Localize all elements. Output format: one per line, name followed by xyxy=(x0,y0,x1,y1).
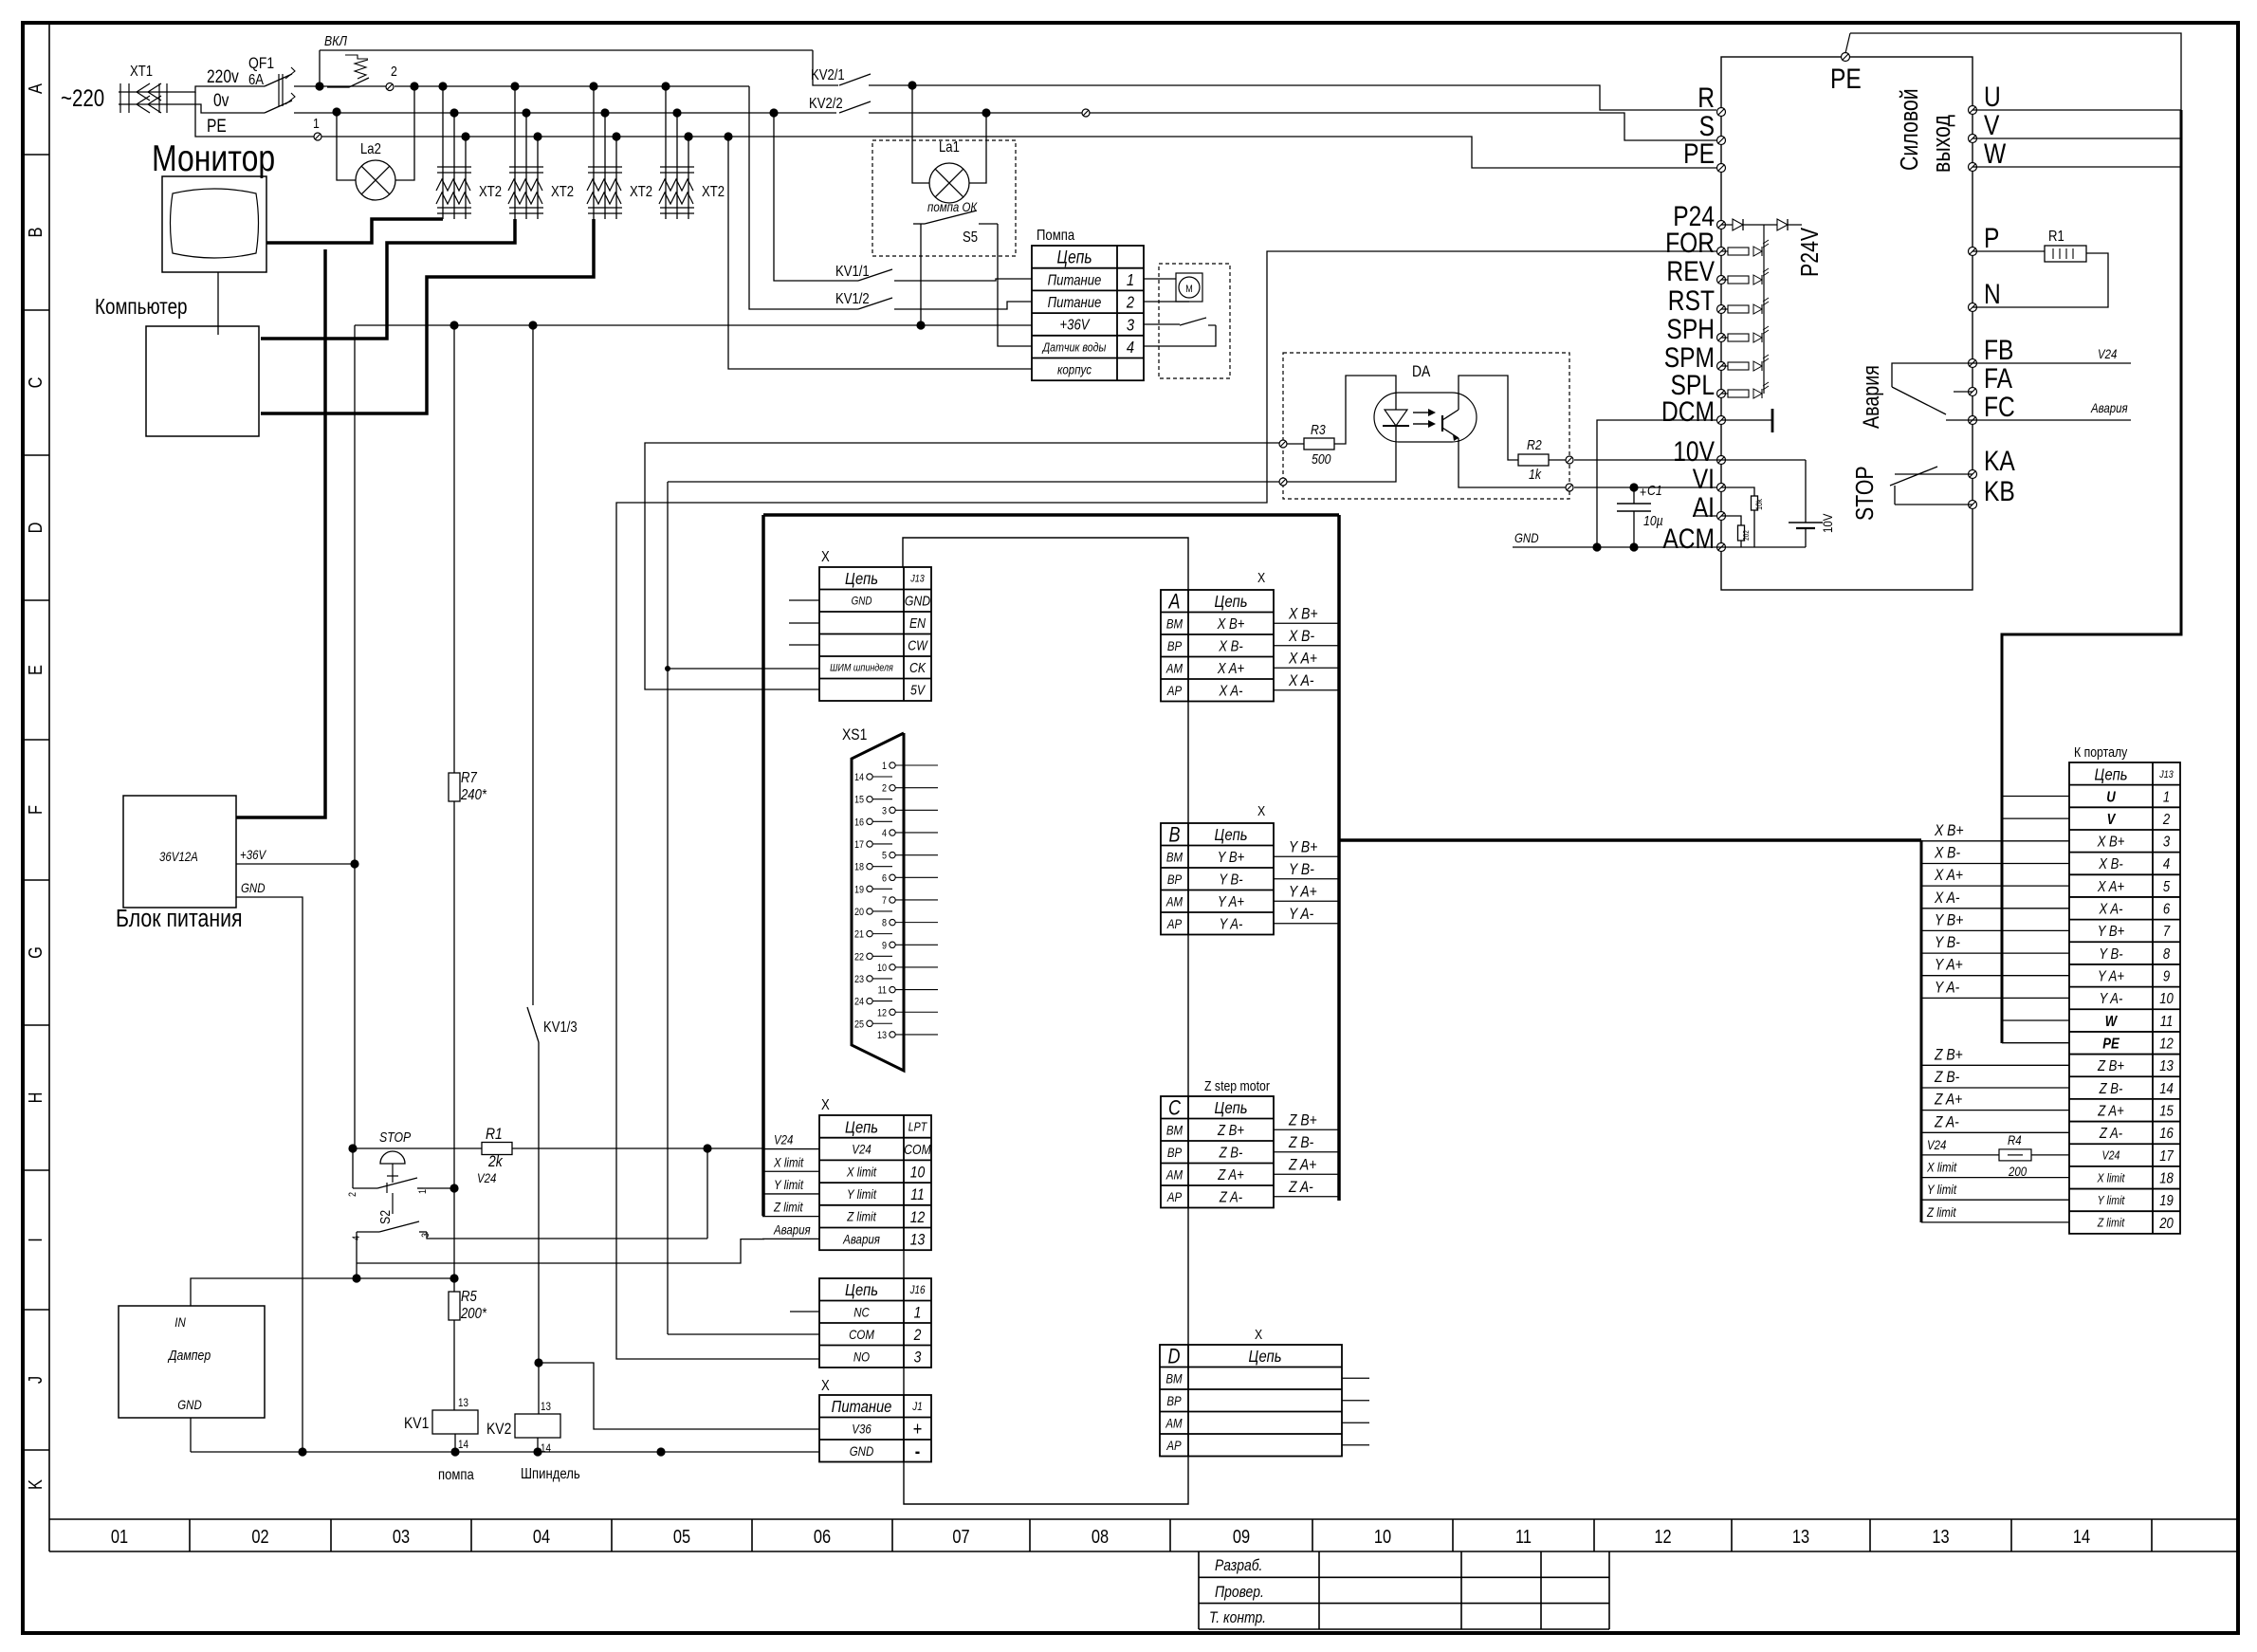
svg-text:GND: GND xyxy=(1514,530,1539,545)
svg-text:IN: IN xyxy=(174,1314,186,1330)
svg-text:V36: V36 xyxy=(852,1421,872,1436)
svg-text:13: 13 xyxy=(458,1397,468,1409)
VFD frequency drive box xyxy=(1721,57,1973,590)
svg-text:BM: BM xyxy=(1165,1370,1183,1386)
svg-text:Дампер: Дампер xyxy=(167,1348,211,1363)
svg-text:01: 01 xyxy=(111,1525,128,1547)
svg-text:La1: La1 xyxy=(939,139,960,156)
wire +36V to switch xyxy=(1144,323,1180,325)
ground stub on DCM xyxy=(1721,419,1772,421)
svg-text:R3: R3 xyxy=(1311,422,1326,437)
svg-text:0v: 0v xyxy=(213,90,229,111)
stub wires LPT left with labels xyxy=(762,1148,819,1150)
svg-text:X B+: X B+ xyxy=(2097,834,2125,850)
svg-text:Z B+: Z B+ xyxy=(1217,1123,1244,1139)
VFD right terminals xyxy=(1969,106,1977,115)
svg-text:K: K xyxy=(24,1479,46,1490)
svg-text:P24V: P24V xyxy=(1796,228,1825,277)
resistor R2 xyxy=(1518,454,1549,466)
svg-text:Датчик воды: Датчик воды xyxy=(1041,340,1107,354)
svg-text:BP: BP xyxy=(1167,1145,1183,1160)
svg-text:R5: R5 xyxy=(461,1289,478,1305)
column number strip 01-14 xyxy=(49,1518,2240,1520)
svg-text:Y B+: Y B+ xyxy=(2098,924,2125,940)
optocoupler DA body xyxy=(1374,393,1477,442)
pump motor box xyxy=(1159,264,1230,378)
wire pump supply 2 xyxy=(1144,301,1189,303)
svg-text:AI: AI xyxy=(1693,491,1715,523)
svg-text:Цепь: Цепь xyxy=(845,1281,878,1300)
VFD PE terminal top xyxy=(1842,53,1850,62)
wire La1 right xyxy=(982,108,990,117)
svg-text:X A+: X A+ xyxy=(1217,661,1245,677)
svg-text:20: 20 xyxy=(854,907,864,918)
svg-text:EN: EN xyxy=(909,615,926,631)
svg-text:X B-: X B- xyxy=(1288,628,1314,646)
svg-text:X limit: X limit xyxy=(2097,1170,2126,1184)
svg-text:NO: NO xyxy=(853,1349,870,1364)
svg-text:Питание: Питание xyxy=(1048,295,1102,311)
svg-text:Y B-: Y B- xyxy=(1219,872,1242,888)
svg-text:16: 16 xyxy=(854,817,864,829)
svg-text:10: 10 xyxy=(1374,1525,1391,1547)
svg-text:9: 9 xyxy=(882,941,887,952)
svg-text:Z A-: Z A- xyxy=(2099,1126,2122,1142)
svg-text:V24: V24 xyxy=(2098,346,2117,361)
svg-text:KV1/3: KV1/3 xyxy=(543,1019,578,1036)
svg-text:~220: ~220 xyxy=(61,84,104,111)
controller board box xyxy=(763,513,1339,517)
svg-text:BM: BM xyxy=(1166,849,1184,864)
svg-text:10k: 10k xyxy=(1754,498,1764,510)
wire PSU GND xyxy=(236,897,303,1452)
svg-text:13: 13 xyxy=(877,1030,887,1041)
svg-text:Z limit: Z limit xyxy=(846,1209,876,1224)
svg-text:03: 03 xyxy=(393,1525,410,1547)
svg-text:18: 18 xyxy=(854,862,864,873)
wire ACM GND rail xyxy=(1513,546,1806,548)
svg-text:D: D xyxy=(1167,1346,1180,1368)
svg-text:XT1: XT1 xyxy=(130,64,153,80)
wire S5 to water sensor row xyxy=(998,224,1032,346)
svg-text:AP: AP xyxy=(1166,916,1183,931)
svg-text:ВКЛ: ВКЛ xyxy=(324,33,347,48)
svg-text:3: 3 xyxy=(2163,834,2170,850)
wire 5V to R3 input xyxy=(645,443,1283,689)
power supply unit (Блок питания) xyxy=(123,796,236,908)
connector XT2 xyxy=(589,82,597,90)
svg-text:Силовой: Силовой xyxy=(1896,88,1924,171)
wire water sensor xyxy=(1144,325,1216,346)
svg-text:15: 15 xyxy=(854,795,864,806)
svg-text:Цепь: Цепь xyxy=(1214,593,1247,612)
wire V24 rail xyxy=(353,1147,762,1149)
svg-text:Y A-: Y A- xyxy=(2100,991,2123,1007)
contact KA-KB (stop) xyxy=(1895,473,1973,475)
svg-text:15: 15 xyxy=(2159,1103,2174,1119)
svg-text:19: 19 xyxy=(2159,1193,2174,1209)
diode pair on P24 xyxy=(1721,224,1802,226)
svg-text:C: C xyxy=(1168,1097,1181,1120)
svg-text:Z A+: Z A+ xyxy=(1217,1167,1244,1184)
svg-text:B: B xyxy=(24,228,46,238)
svg-text:PE: PE xyxy=(207,116,227,137)
svg-text:X B+: X B+ xyxy=(1934,822,1963,840)
svg-text:Z limit: Z limit xyxy=(2097,1216,2125,1230)
svg-text:2: 2 xyxy=(391,64,397,79)
svg-text:Z B-: Z B- xyxy=(2099,1081,2123,1097)
svg-text:CW: CW xyxy=(908,638,928,653)
svg-text:18: 18 xyxy=(2159,1170,2174,1186)
svg-text:Z B-: Z B- xyxy=(1934,1069,1959,1087)
svg-text:R7: R7 xyxy=(461,770,478,786)
svg-text:Y A-: Y A- xyxy=(1220,916,1243,932)
svg-text:X B+: X B+ xyxy=(1217,616,1245,633)
connector XT2 xyxy=(510,82,519,90)
indicator box La1 (pump OK) xyxy=(872,140,1016,256)
svg-text:A: A xyxy=(1168,591,1181,614)
wire PE to portal cable xyxy=(1850,33,2181,110)
svg-text:20: 20 xyxy=(2158,1216,2174,1232)
wire pump body to PE xyxy=(684,132,692,140)
resistor R7 xyxy=(449,773,460,801)
connector XT2 xyxy=(661,82,670,90)
svg-text:220v: 220v xyxy=(207,66,239,87)
svg-text:DA: DA xyxy=(1412,363,1431,381)
wire U to portal xyxy=(1973,109,2181,111)
svg-text:Z limit: Z limit xyxy=(773,1200,803,1215)
svg-text:Y limit: Y limit xyxy=(2098,1193,2125,1207)
damper box xyxy=(119,1306,265,1418)
svg-text:Y limit: Y limit xyxy=(774,1177,803,1192)
title block xyxy=(1198,1551,1200,1629)
svg-text:6: 6 xyxy=(882,873,887,885)
svg-text:Питание: Питание xyxy=(1048,272,1102,288)
svg-text:Z A-: Z A- xyxy=(1934,1113,1959,1131)
svg-text:+: + xyxy=(913,1418,923,1440)
svg-text:Цепь: Цепь xyxy=(845,570,878,589)
svg-text:10V: 10V xyxy=(1820,513,1835,533)
svg-text:Цепь: Цепь xyxy=(2094,765,2127,784)
svg-text:REV: REV xyxy=(1666,255,1715,287)
svg-text:NC: NC xyxy=(853,1304,870,1319)
svg-text:13: 13 xyxy=(1932,1525,1949,1547)
svg-text:06: 06 xyxy=(814,1525,831,1547)
svg-text:Цепь: Цепь xyxy=(1056,247,1092,267)
svg-text:4: 4 xyxy=(2163,856,2170,872)
svg-text:KV1/2: KV1/2 xyxy=(835,291,870,307)
svg-text:11: 11 xyxy=(878,985,888,997)
collector wire to R2 xyxy=(1459,376,1519,460)
svg-text:Z B+: Z B+ xyxy=(1934,1046,1963,1064)
svg-text:Z A-: Z A- xyxy=(1219,1189,1242,1205)
svg-text:PE: PE xyxy=(1830,63,1862,95)
svg-text:XT2: XT2 xyxy=(702,184,725,200)
svg-text:Помпа: Помпа xyxy=(1037,228,1075,244)
svg-text:Z limit: Z limit xyxy=(1926,1204,1956,1220)
wire CK (PWM) to optocoupler cathode and relay COM xyxy=(668,668,819,670)
svg-text:AP: AP xyxy=(1165,1438,1182,1453)
svg-text:Y A-: Y A- xyxy=(1289,906,1313,924)
svg-text:GND: GND xyxy=(852,596,872,608)
VFD control terminals xyxy=(1717,221,1726,229)
svg-text:11: 11 xyxy=(910,1186,924,1204)
svg-text:AM: AM xyxy=(1165,893,1183,909)
svg-text:24: 24 xyxy=(854,997,864,1008)
resistor 202 on AI xyxy=(1721,516,1741,525)
wire monitor to computer xyxy=(217,272,219,335)
wire PSU +36V riser xyxy=(236,863,355,865)
svg-text:U: U xyxy=(1984,81,2001,113)
svg-text:BM: BM xyxy=(1166,1122,1184,1137)
connector table J16 (relay out) xyxy=(819,1278,931,1367)
svg-text:V24: V24 xyxy=(2102,1148,2120,1163)
svg-text:Y B+: Y B+ xyxy=(1289,838,1317,856)
svg-text:7: 7 xyxy=(2163,924,2171,940)
svg-text:RST: RST xyxy=(1668,285,1715,317)
svg-text:2: 2 xyxy=(2162,812,2170,828)
emitter wire to VI xyxy=(1459,438,1566,487)
wire La2 right xyxy=(410,82,418,90)
svg-text:200*: 200* xyxy=(460,1306,487,1322)
svg-text:12: 12 xyxy=(910,1209,926,1227)
svg-text:07: 07 xyxy=(952,1525,969,1547)
svg-text:Питание: Питание xyxy=(832,1398,892,1417)
svg-text:Разраб.: Разраб. xyxy=(1215,1557,1262,1575)
svg-text:10: 10 xyxy=(877,963,887,974)
svg-text:BP: BP xyxy=(1167,638,1183,653)
svg-text:J16: J16 xyxy=(909,1284,927,1296)
svg-text:X B-: X B- xyxy=(1934,844,1960,862)
wire common GND rail xyxy=(191,1451,819,1453)
svg-text:+: + xyxy=(1640,485,1646,500)
svg-text:36V12A: 36V12A xyxy=(159,849,198,864)
wire V36 feed xyxy=(534,1358,542,1367)
svg-text:Авария: Авария xyxy=(1858,365,1883,429)
svg-text:X A-: X A- xyxy=(2099,901,2123,917)
svg-text:M: M xyxy=(1185,284,1193,295)
svg-text:V: V xyxy=(1984,109,2000,141)
svg-text:12: 12 xyxy=(877,1008,887,1019)
svg-text:R2: R2 xyxy=(1527,437,1542,452)
portal U V W PE stubs xyxy=(2002,796,2069,798)
svg-text:19: 19 xyxy=(854,885,864,896)
svg-text:X B-: X B- xyxy=(2098,856,2123,872)
svg-text:Y A+: Y A+ xyxy=(1289,883,1317,901)
svg-text:FA: FA xyxy=(1984,362,2013,395)
wire FOR to relay NO xyxy=(616,251,1721,1359)
svg-text:5V: 5V xyxy=(910,683,927,698)
resistor R3 xyxy=(1279,440,1287,448)
wire mains to PSU xyxy=(236,249,325,817)
svg-text:10: 10 xyxy=(2159,991,2174,1007)
svg-text:X: X xyxy=(1255,1327,1262,1342)
svg-text:Авария: Авария xyxy=(773,1221,811,1237)
svg-text:X A+: X A+ xyxy=(2097,879,2125,895)
svg-text:PE: PE xyxy=(2102,1036,2120,1052)
svg-text:Т. контр.: Т. контр. xyxy=(1209,1609,1266,1627)
wire FC avaria out xyxy=(1973,419,2131,421)
svg-text:XT2: XT2 xyxy=(630,184,652,200)
svg-text:16: 16 xyxy=(2159,1126,2174,1142)
svg-text:Y limit: Y limit xyxy=(1927,1182,1956,1197)
svg-text:X A+: X A+ xyxy=(1934,867,1963,885)
stub wires J13 left xyxy=(789,599,819,601)
svg-text:F: F xyxy=(24,805,46,815)
svg-text:X: X xyxy=(1257,803,1265,818)
wire S5 to +36V xyxy=(920,224,922,325)
svg-text:LPT: LPT xyxy=(908,1120,927,1134)
svg-text:5: 5 xyxy=(882,851,887,862)
svg-text:Z A+: Z A+ xyxy=(1288,1156,1316,1174)
svg-text:2: 2 xyxy=(347,1192,358,1197)
wire VI xyxy=(1574,486,1716,488)
svg-text:BP: BP xyxy=(1166,1393,1182,1408)
optocoupler DA box xyxy=(1283,353,1569,499)
svg-text:7: 7 xyxy=(882,895,887,907)
svg-text:Y B+: Y B+ xyxy=(1218,850,1245,866)
svg-text:ACM: ACM xyxy=(1662,523,1715,555)
svg-text:CK: CK xyxy=(909,660,927,675)
svg-text:Z B-: Z B- xyxy=(1288,1134,1313,1152)
svg-text:X limit: X limit xyxy=(1926,1159,1957,1174)
switch S5 (float) xyxy=(913,223,925,225)
svg-text:Цепь: Цепь xyxy=(1214,826,1247,845)
svg-text:SPH: SPH xyxy=(1666,313,1715,345)
wire KV2/1 output to R terminal xyxy=(869,85,1716,110)
svg-text:200: 200 xyxy=(2008,1164,2028,1179)
svg-text:500: 500 xyxy=(1312,451,1331,467)
svg-text:21: 21 xyxy=(854,929,864,941)
svg-text:KV2: KV2 xyxy=(486,1421,511,1439)
svg-text:X limit: X limit xyxy=(773,1154,804,1169)
svg-text:23: 23 xyxy=(854,974,864,985)
svg-text:J1: J1 xyxy=(911,1401,922,1413)
svg-text:25: 25 xyxy=(854,1019,864,1031)
wire FB V24 out xyxy=(1973,362,2131,364)
svg-text:V24: V24 xyxy=(1927,1137,1946,1152)
svg-text:J13: J13 xyxy=(909,574,925,585)
svg-text:E: E xyxy=(24,665,46,675)
svg-text:S5: S5 xyxy=(963,229,978,246)
svg-text:V24: V24 xyxy=(852,1141,871,1156)
svg-text:Z A-: Z A- xyxy=(1288,1179,1313,1197)
svg-text:U: U xyxy=(2106,789,2116,805)
svg-text:KV1: KV1 xyxy=(404,1415,429,1433)
svg-text:2: 2 xyxy=(882,783,887,795)
capacitor C1 xyxy=(1629,483,1638,491)
svg-text:COM: COM xyxy=(904,1142,931,1157)
LED in DA xyxy=(1334,376,1396,444)
svg-text:STOP: STOP xyxy=(379,1129,412,1145)
svg-text:1: 1 xyxy=(313,116,320,131)
svg-text:8: 8 xyxy=(882,918,887,929)
svg-text:X limit: X limit xyxy=(846,1164,877,1179)
svg-text:W: W xyxy=(2105,1014,2118,1030)
wire COM from spindle PWM net xyxy=(668,1333,819,1335)
svg-text:H: H xyxy=(24,1092,46,1104)
svg-text:11: 11 xyxy=(2160,1014,2174,1030)
svg-text:14: 14 xyxy=(2073,1525,2090,1547)
svg-text:13: 13 xyxy=(541,1401,551,1413)
svg-text:1: 1 xyxy=(2163,789,2170,805)
wire damper IN rail xyxy=(191,1278,454,1306)
svg-text:X: X xyxy=(821,1378,830,1394)
wire KV2/2 output to S terminal xyxy=(869,113,1716,140)
light arrows xyxy=(1413,412,1428,413)
svg-text:4: 4 xyxy=(1127,339,1134,358)
svg-text:I: I xyxy=(24,1238,46,1242)
svg-text:Y limit: Y limit xyxy=(847,1186,876,1202)
svg-text:202: 202 xyxy=(1741,530,1751,541)
svg-text:Y A+: Y A+ xyxy=(1935,956,1963,974)
svg-text:22: 22 xyxy=(854,952,864,964)
svg-text:AM: AM xyxy=(1165,660,1183,675)
svg-text:X A-: X A- xyxy=(1934,890,1959,908)
svg-text:X A-: X A- xyxy=(1288,672,1313,690)
wire S2-4 to Avaria xyxy=(356,1232,358,1278)
wire PE bus xyxy=(313,137,1716,168)
svg-text:R1: R1 xyxy=(486,1126,503,1144)
svg-text:J13: J13 xyxy=(2158,769,2174,780)
svg-text:14: 14 xyxy=(854,772,864,783)
wire S2-3 to V24 rail xyxy=(427,1232,707,1239)
svg-text:2k: 2k xyxy=(487,1153,504,1171)
svg-text:AM: AM xyxy=(1165,1166,1183,1182)
svg-text:Y B-: Y B- xyxy=(2099,946,2122,963)
svg-text:XS1: XS1 xyxy=(842,726,867,744)
svg-text:-: - xyxy=(915,1440,920,1461)
svg-text:Цепь: Цепь xyxy=(1214,1099,1247,1118)
svg-text:ШИМ шпинделя: ШИМ шпинделя xyxy=(830,663,893,674)
svg-text:Y B-: Y B- xyxy=(1289,861,1314,879)
svg-text:X B+: X B+ xyxy=(1288,605,1317,623)
wire AI stub xyxy=(1693,515,1716,517)
svg-text:PE: PE xyxy=(1683,138,1715,170)
svg-text:+36V: +36V xyxy=(1059,318,1090,334)
svg-text:Y B-: Y B- xyxy=(1935,934,1960,952)
svg-text:Y B+: Y B+ xyxy=(1935,911,1963,929)
svg-text:помпа: помпа xyxy=(438,1467,475,1483)
svg-text:9: 9 xyxy=(2163,968,2170,984)
svg-text:10: 10 xyxy=(910,1164,926,1182)
svg-text:D: D xyxy=(24,523,46,534)
battery 10V xyxy=(1805,460,1807,523)
svg-text:X A+: X A+ xyxy=(1288,650,1317,668)
wire XT2 #3 drop to computer xyxy=(261,219,594,413)
svg-text:13: 13 xyxy=(1792,1525,1809,1547)
transistor in DA xyxy=(1441,415,1443,431)
svg-text:Авария: Авария xyxy=(2090,400,2128,415)
stub NC xyxy=(790,1311,819,1312)
svg-text:G: G xyxy=(24,946,46,959)
switch in pump (water sensor) xyxy=(1180,318,1206,325)
wire DCM to analog GND xyxy=(1597,420,1721,547)
svg-text:2: 2 xyxy=(913,1327,922,1345)
portal stub wires xyxy=(1921,840,2069,842)
contact FB-FA (avaria) xyxy=(1892,363,1973,387)
svg-text:04: 04 xyxy=(533,1525,550,1547)
wire V to portal xyxy=(1973,138,2181,139)
svg-text:La2: La2 xyxy=(360,141,381,157)
svg-text:240*: 240* xyxy=(460,787,487,803)
svg-text:Монитор: Монитор xyxy=(152,138,275,179)
svg-text:12: 12 xyxy=(2159,1036,2174,1052)
svg-text:09: 09 xyxy=(1233,1525,1250,1547)
wire monitor to XT2 #1 (mains cord) xyxy=(266,219,443,243)
wire 10V rail xyxy=(1574,459,1806,461)
svg-text:J: J xyxy=(24,1376,46,1384)
